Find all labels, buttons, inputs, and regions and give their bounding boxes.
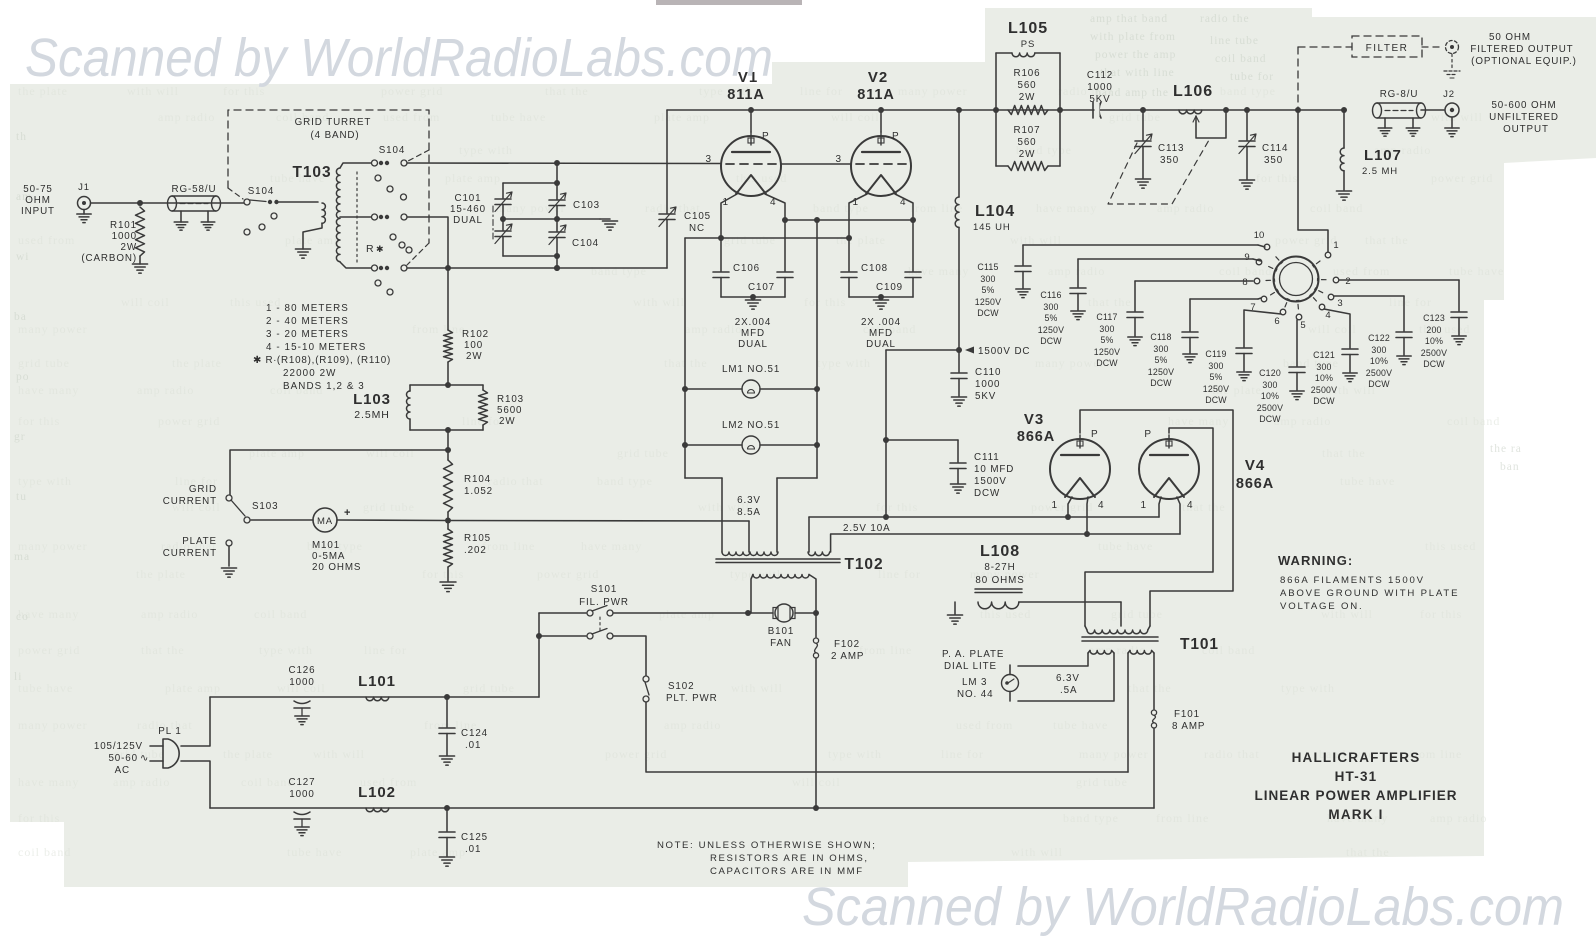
svg-text:band type: band type — [813, 201, 869, 215]
svg-text:S101: S101 — [591, 584, 617, 595]
svg-text:have many: have many — [1036, 201, 1097, 215]
bleed-through texture — [18, 84, 1504, 859]
ground below C110 — [951, 396, 966, 398]
svg-text:plate amp: plate amp — [165, 681, 221, 695]
svg-text:S103: S103 — [252, 501, 278, 512]
wire lower AC line — [210, 807, 1154, 809]
svg-text:4 - 15-10 METERS: 4 - 15-10 METERS — [266, 342, 366, 353]
svg-text:for this: for this — [422, 567, 464, 581]
svg-text:C114: C114 — [1262, 143, 1288, 154]
svg-text:3: 3 — [1337, 298, 1342, 309]
svg-text:the plate: the plate — [836, 233, 886, 247]
svg-text:✱ R∙(R108),(R109), (R110): ✱ R∙(R108),(R109), (R110) — [253, 355, 391, 366]
svg-text:many power: many power — [18, 322, 88, 336]
svg-text:C112: C112 — [1087, 70, 1113, 81]
svg-text:RESISTORS ARE IN OHMS,: RESISTORS ARE IN OHMS, — [710, 853, 869, 864]
svg-text:22000 2W: 22000 2W — [283, 368, 336, 379]
svg-text:have many: have many — [581, 539, 642, 553]
capacitor C106 — [713, 271, 729, 273]
svg-text:GRID TURRET: GRID TURRET — [295, 117, 372, 128]
svg-text:+: + — [344, 507, 351, 519]
svg-text:2500V: 2500V — [1366, 368, 1392, 378]
svg-text:for this: for this — [1420, 607, 1462, 621]
wire plate line y110 — [667, 109, 1344, 111]
grid dashes V1 — [726, 163, 776, 165]
svg-text:866A FILAMENTS 1500V: 866A FILAMENTS 1500V — [1280, 575, 1425, 586]
svg-text:145 UH: 145 UH — [973, 222, 1011, 233]
svg-text:50 OHM: 50 OHM — [1489, 32, 1531, 43]
svg-text:the plate: the plate — [223, 747, 273, 761]
grounds of RG-8/U — [1384, 118, 1386, 128]
svg-text:2X.004: 2X.004 — [735, 317, 771, 328]
svg-text:C120: C120 — [1259, 368, 1281, 378]
svg-text:coil band: coil band — [1215, 53, 1266, 65]
svg-text:C106: C106 — [733, 263, 760, 274]
ground below filtered output (dashed) — [1444, 70, 1460, 72]
svg-text:radio the: radio the — [1200, 13, 1250, 25]
svg-text:DCW: DCW — [1096, 358, 1118, 368]
wire V2 pin4 lead — [895, 194, 913, 271]
svg-text:band type: band type — [1063, 811, 1119, 825]
T102 2.5V secondary coil — [808, 552, 830, 556]
meter M101 — [251, 519, 313, 521]
svg-text:the ra: the ra — [1490, 443, 1522, 455]
svg-text:2500V: 2500V — [1421, 348, 1447, 358]
svg-text:for this: for this — [1256, 171, 1298, 185]
svg-text:NO. 44: NO. 44 — [957, 689, 993, 700]
wire V3 plate loop — [1080, 410, 1233, 626]
wire lower turret line to C105 — [407, 267, 667, 269]
svg-text:R107: R107 — [1013, 125, 1040, 136]
resistor R105 — [444, 529, 453, 567]
svg-text:this used: this used — [1425, 539, 1476, 553]
wire upper AC line — [210, 696, 539, 698]
wire filament rails step in — [685, 477, 722, 479]
svg-text:2 - 40 METERS: 2 - 40 METERS — [266, 316, 349, 327]
wire V2 pin1 lead — [849, 194, 867, 271]
svg-text:CURRENT: CURRENT — [163, 496, 217, 507]
svg-text:5: 5 — [1300, 320, 1305, 331]
svg-text:many power: many power — [898, 84, 968, 98]
svg-text:DCW: DCW — [974, 488, 1000, 499]
ground below plate-current contact — [221, 567, 236, 569]
wire V1 pin1 lead — [721, 194, 737, 271]
svg-text:PLATE: PLATE — [182, 536, 217, 547]
svg-text:ban: ban — [1500, 461, 1520, 473]
svg-text:20 OHMS: 20 OHMS — [312, 562, 361, 573]
filter box — [1352, 36, 1422, 57]
dashed filter branch — [1297, 47, 1299, 110]
wire to band switch — [1298, 110, 1328, 252]
svg-text:DCW: DCW — [1368, 379, 1390, 389]
svg-text:10%: 10% — [1261, 391, 1279, 401]
svg-text:300: 300 — [1262, 380, 1277, 390]
svg-text:J2: J2 — [1443, 89, 1455, 100]
svg-text:plate amp: plate amp — [285, 233, 341, 247]
svg-text:∿: ∿ — [140, 753, 149, 764]
T102 core — [716, 558, 840, 560]
wire meter line to T102 center tap — [448, 520, 749, 523]
svg-text:200: 200 — [1426, 325, 1441, 335]
svg-text:L107: L107 — [1364, 147, 1402, 164]
svg-text:DCW: DCW — [1205, 395, 1227, 405]
svg-text:300: 300 — [1153, 344, 1168, 354]
resistor R104 — [444, 460, 453, 512]
svg-text:R102: R102 — [462, 329, 489, 340]
svg-text:C101: C101 — [454, 193, 481, 204]
svg-text:that the: that the — [141, 643, 185, 657]
svg-text:have many: have many — [18, 383, 79, 397]
svg-text:1000: 1000 — [289, 789, 314, 800]
svg-text:L103: L103 — [353, 391, 391, 408]
svg-text:DCW: DCW — [1259, 414, 1281, 424]
wire meter loop top — [230, 450, 448, 495]
gang link dotted line — [356, 172, 358, 262]
svg-text:1500V: 1500V — [974, 476, 1007, 487]
svg-text:power grid: power grid — [605, 747, 667, 761]
svg-text:type with: type with — [18, 474, 72, 488]
svg-text:amp radio: amp radio — [685, 322, 742, 336]
svg-text:OUTPUT: OUTPUT — [1503, 124, 1549, 135]
svg-text:C107: C107 — [748, 282, 775, 293]
svg-text:1: 1 — [1333, 240, 1338, 251]
svg-text:1250V: 1250V — [1038, 325, 1064, 335]
svg-text:tube have: tube have — [1053, 718, 1108, 732]
svg-text:FILTER: FILTER — [1366, 43, 1409, 54]
wire C108/C109 bottoms — [848, 278, 850, 298]
svg-text:po: po — [16, 371, 30, 383]
wire left filament rail — [684, 238, 686, 478]
svg-text:2W: 2W — [499, 416, 516, 427]
svg-text:grid tube: grid tube — [1109, 110, 1161, 124]
svg-text:coil band: coil band — [18, 845, 71, 859]
svg-text:Scanned by WorldRadioLabs.com: Scanned by WorldRadioLabs.com — [802, 877, 1564, 937]
svg-text:C108: C108 — [861, 263, 888, 274]
svg-text:th: th — [16, 131, 27, 143]
svg-text:6.3V: 6.3V — [737, 495, 761, 506]
svg-text:MA: MA — [317, 516, 333, 527]
svg-text:ba: ba — [14, 311, 27, 323]
svg-text:DCW: DCW — [1150, 378, 1172, 388]
svg-text:10 MFD: 10 MFD — [974, 464, 1014, 475]
svg-text:AC: AC — [115, 765, 130, 776]
wire V4 plate loop — [1085, 428, 1213, 626]
ground below C114 — [1239, 179, 1254, 181]
svg-text:FILTERED OUTPUT: FILTERED OUTPUT — [1470, 44, 1573, 55]
connector 50-ohm filtered output — [1446, 41, 1459, 54]
svg-text:have many: have many — [908, 264, 969, 278]
svg-text:R: R — [366, 243, 374, 255]
svg-text:2.5V 10A: 2.5V 10A — [843, 523, 891, 534]
svg-text:this used: this used — [980, 607, 1031, 621]
svg-text:V2: V2 — [868, 69, 888, 86]
bleed-through texture — [14, 13, 1522, 683]
dashed gang parallelogram — [1108, 140, 1209, 204]
svg-text:C124: C124 — [461, 728, 488, 739]
wire dial light loop — [1018, 653, 1088, 666]
svg-text:1250V: 1250V — [1203, 384, 1229, 394]
svg-text:ma: ma — [14, 551, 30, 563]
svg-text:INPUT: INPUT — [21, 206, 55, 217]
ground below C108/C109 — [880, 297, 882, 300]
svg-text:from line: from line — [1156, 811, 1209, 825]
svg-text:line for: line for — [878, 567, 921, 581]
svg-text:RG-8/U: RG-8/U — [1380, 89, 1419, 100]
svg-text:MARK I: MARK I — [1328, 807, 1383, 822]
svg-text:M101: M101 — [312, 540, 340, 551]
capacitor C117 — [1135, 280, 1253, 282]
svg-text:grid tube: grid tube — [463, 681, 515, 695]
ground below C124 — [439, 755, 454, 757]
svg-text:DUAL: DUAL — [738, 339, 768, 350]
svg-text:1000: 1000 — [1087, 82, 1112, 93]
svg-text:C116: C116 — [1040, 290, 1061, 300]
svg-text:S104: S104 — [248, 186, 274, 197]
capacitor C116 — [1078, 258, 1253, 260]
svg-text:5%: 5% — [1100, 335, 1113, 345]
svg-text:with will: with will — [1431, 110, 1483, 124]
svg-text:300: 300 — [1099, 324, 1114, 334]
svg-text:(OPTIONAL EQUIP.): (OPTIONAL EQUIP.) — [1471, 56, 1577, 67]
grid dashes V2 — [856, 163, 906, 165]
svg-text:.01: .01 — [465, 844, 481, 855]
svg-text:5%: 5% — [1154, 355, 1167, 365]
svg-text:LM2 NO.51: LM2 NO.51 — [722, 420, 780, 431]
svg-text:amp radio: amp radio — [158, 110, 215, 124]
svg-text:P: P — [1144, 429, 1152, 440]
capacitor C124 — [446, 697, 448, 727]
wire V1 plate to line — [750, 110, 752, 132]
svg-text:coil band: coil band — [1219, 264, 1272, 278]
svg-text:Scanned by WorldRadioLabs.com: Scanned by WorldRadioLabs.com — [25, 28, 773, 88]
svg-text:many power: many power — [1035, 356, 1105, 370]
svg-text:GRID: GRID — [189, 484, 217, 495]
svg-text:DUAL: DUAL — [453, 215, 483, 226]
svg-text:2W: 2W — [466, 351, 483, 362]
svg-text:DCW: DCW — [1423, 359, 1445, 369]
svg-text:300: 300 — [1371, 345, 1386, 355]
wire V1 to V2 grid — [781, 163, 851, 165]
ground below L108 — [947, 614, 962, 616]
T101 core — [1082, 636, 1158, 638]
wire S101 pole1 to fan line — [613, 612, 748, 614]
svg-text:NC: NC — [689, 223, 705, 234]
wire L106 tap loop — [1196, 110, 1226, 138]
wire C106/C107 bottoms — [720, 278, 722, 298]
svg-text:R105: R105 — [464, 533, 491, 544]
svg-text:plate amp: plate amp — [249, 446, 305, 460]
svg-text:power grid: power grid — [1031, 500, 1093, 514]
ground below L107 — [1336, 190, 1351, 192]
svg-text:C123: C123 — [1423, 313, 1445, 323]
svg-text:2500V: 2500V — [1311, 385, 1337, 395]
svg-text:amp radio: amp radio — [1048, 264, 1105, 278]
svg-text:grid tube: grid tube — [18, 356, 70, 370]
svg-text:3 - 20 METERS: 3 - 20 METERS — [266, 329, 349, 340]
wire T103 secondary top to S104 — [340, 163, 371, 168]
svg-text:type with: type with — [730, 567, 784, 581]
wire S102 to T101 primary — [646, 702, 1128, 772]
wire grid line to V1 pin 3 — [407, 162, 720, 165]
ground below J2 — [1451, 117, 1453, 128]
svg-text:560: 560 — [1017, 80, 1036, 91]
svg-text:MFD: MFD — [869, 328, 893, 339]
wire filament bus y220 — [785, 219, 913, 221]
svg-text:DCW: DCW — [1040, 336, 1062, 346]
capacitor C125 — [446, 808, 448, 831]
resistor R102 — [447, 268, 449, 330]
svg-text:CAPACITORS ARE IN MMF: CAPACITORS ARE IN MMF — [710, 866, 864, 877]
svg-text:5600: 5600 — [497, 405, 522, 416]
svg-text:tube have: tube have — [287, 845, 342, 859]
svg-text:C121: C121 — [1313, 350, 1335, 360]
svg-text:FAN: FAN — [770, 638, 792, 649]
svg-text:4: 4 — [1325, 310, 1330, 321]
svg-text:P. A. PLATE: P. A. PLATE — [942, 649, 1004, 660]
svg-text:amp that band: amp that band — [1090, 13, 1168, 25]
svg-text:300: 300 — [1043, 302, 1058, 312]
wire V3 pin1 to filament line — [1068, 497, 1072, 517]
svg-text:B101: B101 — [768, 626, 794, 637]
svg-text:HALLICRAFTERS: HALLICRAFTERS — [1292, 750, 1421, 765]
svg-text:that the: that the — [1128, 681, 1172, 695]
svg-text:tube have: tube have — [1449, 264, 1504, 278]
svg-text:with plate from: with plate from — [1090, 31, 1176, 43]
svg-text:have many: have many — [1168, 414, 1229, 428]
svg-text:10%: 10% — [1315, 373, 1333, 383]
wire from plate line down to C105 — [666, 110, 668, 213]
svg-text:2.5 MH: 2.5 MH — [1362, 166, 1398, 177]
svg-text:line for: line for — [364, 643, 407, 657]
svg-text:tube have: tube have — [1340, 474, 1395, 488]
svg-text:100: 100 — [464, 340, 483, 351]
svg-text:8-27H: 8-27H — [984, 562, 1015, 573]
wire 2.5V filament line upper — [809, 516, 1159, 518]
svg-text:line tube: line tube — [1210, 35, 1259, 47]
svg-text:50-60: 50-60 — [108, 753, 138, 764]
svg-text:P: P — [892, 131, 900, 142]
svg-text:CURRENT: CURRENT — [163, 548, 217, 559]
svg-text:1: 1 — [1052, 500, 1058, 511]
capacitor C122 — [1334, 295, 1404, 297]
svg-text:tube have: tube have — [1098, 539, 1153, 553]
svg-text:866A: 866A — [1236, 476, 1274, 492]
unused contacts lower wafer — [375, 280, 381, 286]
svg-text:300: 300 — [980, 274, 995, 284]
grid turret dashed enclosure — [228, 110, 429, 243]
svg-text:PLT. PWR: PLT. PWR — [666, 693, 718, 704]
svg-text:amp radio: amp radio — [664, 718, 721, 732]
ground below R101 — [139, 256, 141, 264]
wire J1 to S104 — [91, 202, 248, 204]
svg-text:811A: 811A — [727, 87, 764, 103]
svg-text:2500V: 2500V — [1257, 403, 1283, 413]
svg-text:for this: for this — [876, 500, 918, 514]
svg-text:50-75: 50-75 — [23, 184, 53, 195]
svg-text:power grid: power grid — [18, 643, 80, 657]
svg-text:8 AMP: 8 AMP — [1172, 721, 1205, 732]
svg-text:tu: tu — [16, 491, 27, 503]
svg-text:from line: from line — [859, 643, 912, 657]
svg-text:560: 560 — [1017, 137, 1036, 148]
svg-text:for this: for this — [18, 414, 60, 428]
svg-text:1 - 80 METERS: 1 - 80 METERS — [266, 303, 349, 314]
svg-text:1500V DC: 1500V DC — [978, 346, 1030, 357]
svg-text:li: li — [14, 671, 22, 683]
svg-text:C125: C125 — [461, 832, 488, 843]
wire T103 secondary bottom row — [340, 262, 371, 268]
fuse F101 — [1151, 710, 1156, 715]
svg-text:plate amp: plate amp — [659, 607, 715, 621]
svg-text:J1: J1 — [78, 182, 90, 193]
svg-text:R106: R106 — [1013, 68, 1040, 79]
svg-text:10%: 10% — [1370, 356, 1388, 366]
svg-text:C122: C122 — [1368, 333, 1390, 343]
svg-text:line for: line for — [1389, 295, 1432, 309]
wire T101 primary right lead to fuse — [1153, 653, 1155, 709]
svg-text:MFD: MFD — [741, 328, 765, 339]
svg-text:3: 3 — [836, 154, 842, 165]
svg-text:the plate: the plate — [136, 567, 186, 581]
svg-text:2W: 2W — [1019, 149, 1036, 160]
wire PL1 top lead — [181, 697, 210, 746]
rotary band switch — [1274, 257, 1319, 302]
svg-text:used from: used from — [383, 110, 440, 124]
svg-text:2W: 2W — [121, 242, 138, 253]
wire S101 pole2 to S102 — [613, 636, 646, 676]
svg-text:DIAL LITE: DIAL LITE — [944, 661, 997, 672]
T101 dial-light winding — [1090, 651, 1112, 655]
svg-text:type with: type with — [259, 643, 313, 657]
svg-text:used from: used from — [18, 233, 75, 247]
wire L108 to T101 center tap — [1019, 601, 1121, 603]
svg-text:6: 6 — [1274, 316, 1279, 327]
svg-text:that the: that the — [664, 356, 708, 370]
ground below R105 — [440, 581, 456, 583]
ground below T103 primary — [295, 248, 310, 250]
svg-text:.01: .01 — [465, 740, 481, 751]
svg-text:band type: band type — [591, 264, 647, 278]
capacitor C119 — [1244, 310, 1281, 347]
svg-text:.5A: .5A — [1060, 685, 1077, 696]
svg-text:amp radio: amp radio — [137, 383, 194, 397]
svg-text:866A: 866A — [1017, 429, 1055, 445]
svg-text:co: co — [16, 611, 29, 623]
svg-text:WARNING:: WARNING: — [1278, 553, 1353, 568]
svg-text:many power: many power — [18, 718, 88, 732]
svg-text:C105: C105 — [684, 211, 711, 222]
svg-text:5%: 5% — [1209, 372, 1222, 382]
capacitor C113 — [1142, 110, 1144, 140]
svg-text:tube for: tube for — [1230, 71, 1274, 83]
svg-text:5%: 5% — [1044, 313, 1057, 323]
svg-text:15-460: 15-460 — [450, 204, 486, 215]
svg-text:LINEAR POWER AMPLIFIER: LINEAR POWER AMPLIFIER — [1255, 788, 1458, 803]
svg-text:amp radio: amp radio — [1274, 414, 1331, 428]
svg-text:P: P — [1091, 429, 1099, 440]
ground below C125 — [439, 856, 454, 858]
T101 primary winding — [1130, 651, 1152, 655]
svg-text:RG-58/U: RG-58/U — [172, 184, 217, 195]
svg-text:NOTE: UNLESS OTHERWISE SHOWN: NOTE: UNLESS OTHERWISE SHOWN; — [657, 840, 876, 851]
svg-text:V4: V4 — [1245, 457, 1265, 474]
capacitor C105 NC — [659, 213, 675, 215]
resistor R101 — [136, 207, 145, 256]
svg-text:S102: S102 — [668, 681, 694, 692]
svg-text:PL 1: PL 1 — [158, 726, 181, 737]
svg-text:C118: C118 — [1150, 332, 1171, 342]
svg-text:9: 9 — [1244, 252, 1249, 263]
